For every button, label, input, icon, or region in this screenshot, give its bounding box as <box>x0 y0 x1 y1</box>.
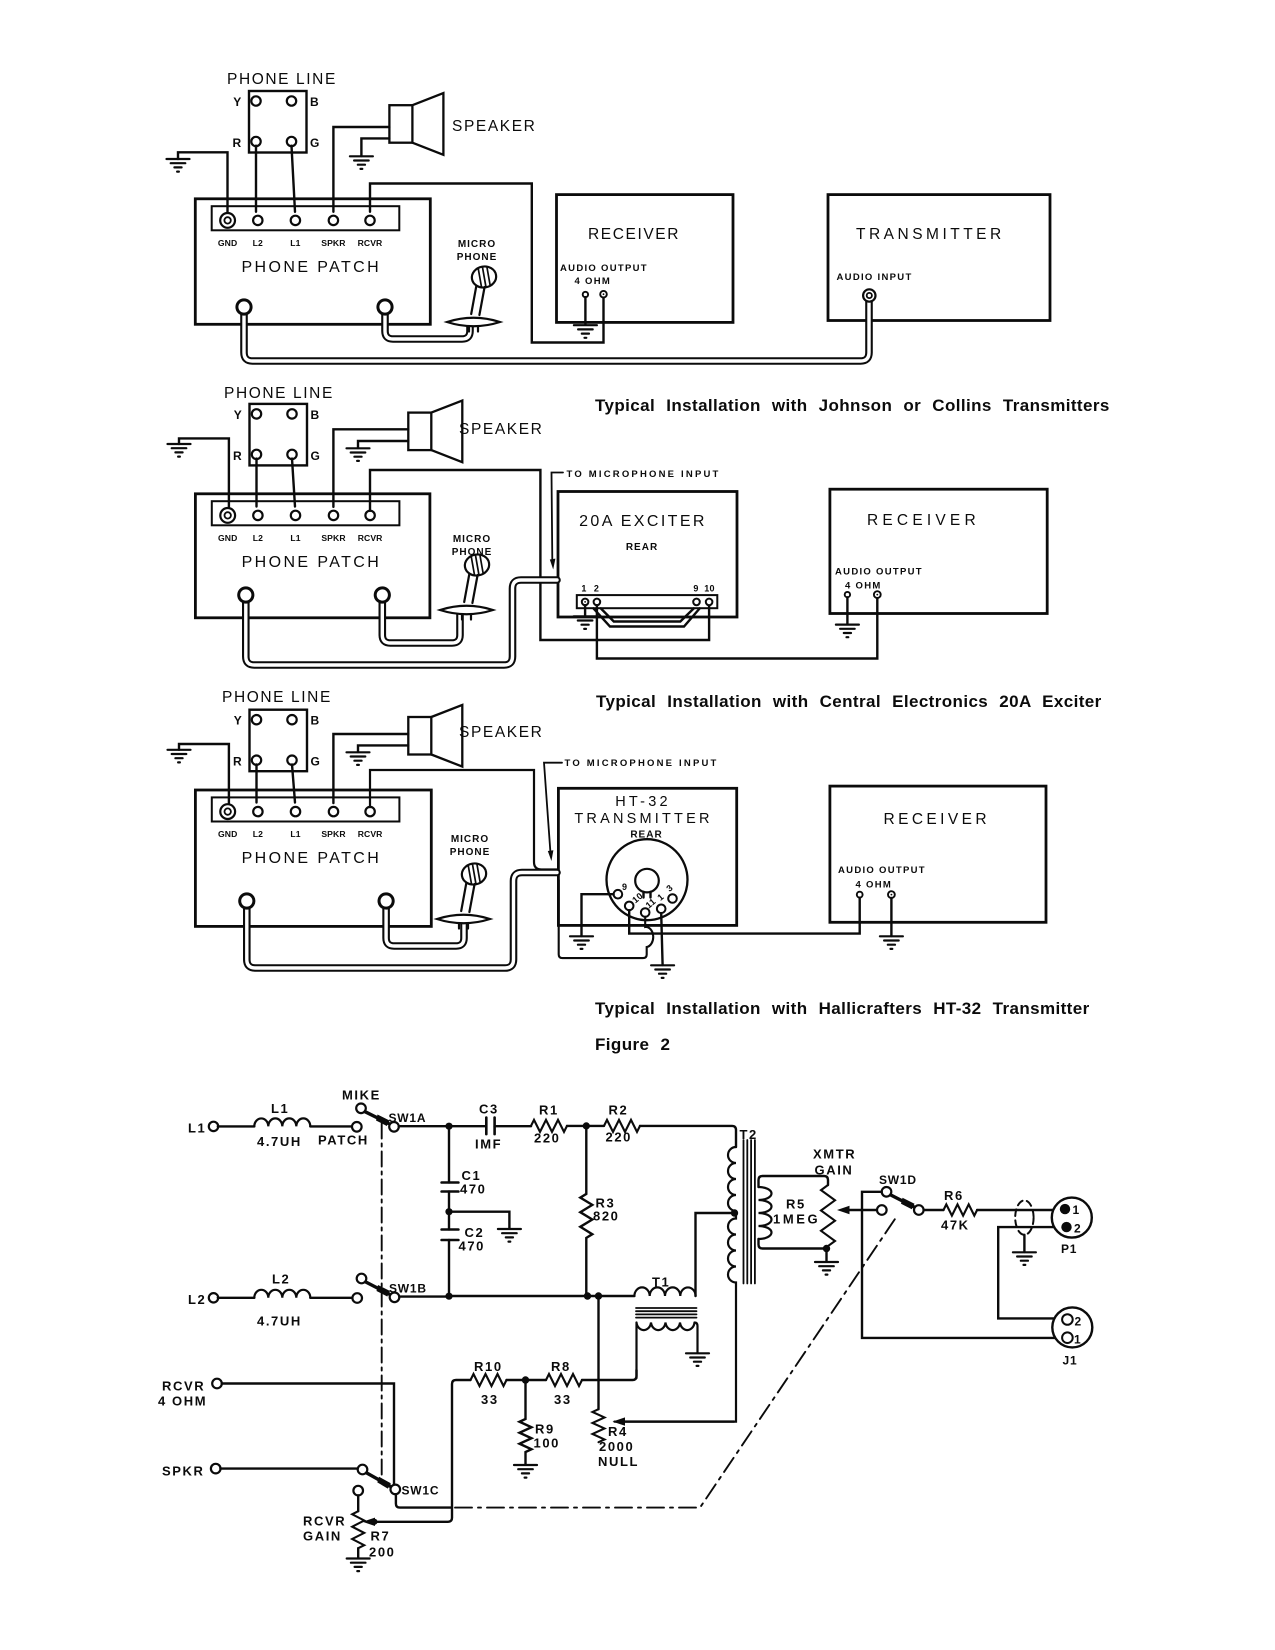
wire ground to GND terminal (d3) <box>179 744 229 803</box>
potentiometer R5 <box>821 1185 835 1249</box>
patch output jack right (d2) <box>375 588 389 602</box>
wire coil L2 to SW1B contact <box>310 1297 352 1299</box>
svg-text:MICRO: MICRO <box>453 534 491 545</box>
wire pin 9 to ground <box>582 894 614 936</box>
wire R8 to T1 secondary <box>582 1370 637 1380</box>
switch SW1C SPKR contact <box>358 1465 368 1475</box>
resistor R1 <box>531 1120 567 1132</box>
switch SW1B upper contact <box>357 1274 367 1284</box>
wire T1 primary to T2 center tap <box>696 1213 737 1296</box>
wire SPKR terminal to speaker (d2) <box>333 429 408 507</box>
svg-text:AUDIO INPUT: AUDIO INPUT <box>837 272 913 283</box>
cable patch jack to transmitter audio input <box>244 302 869 362</box>
svg-text:AUDIO OUTPUT: AUDIO OUTPUT <box>560 263 648 274</box>
ground (station ground d1) <box>167 159 190 172</box>
svg-text:R7: R7 <box>371 1529 391 1544</box>
wire C1 to C2 with ground tap <box>448 1192 450 1230</box>
connector P1 shell <box>1052 1198 1092 1238</box>
svg-text:SW1A: SW1A <box>389 1111 427 1125</box>
patch output jack left (d3) <box>240 894 254 908</box>
HT-32 connector shell <box>607 839 688 920</box>
ground (speaker d1) <box>350 156 373 169</box>
svg-text:R5: R5 <box>786 1197 806 1212</box>
ground (speaker d2) <box>347 448 370 461</box>
ground (receiver d1) <box>574 325 597 338</box>
svg-text:PHONE: PHONE <box>452 547 493 558</box>
wire R7 to ground <box>357 1548 359 1558</box>
node R4 top branch wire <box>597 1296 599 1409</box>
resistor R2 <box>604 1120 640 1132</box>
R4 wiper arrow <box>620 1420 734 1422</box>
svg-text:1: 1 <box>1074 1333 1081 1347</box>
svg-text:4 OHM: 4 OHM <box>845 581 882 592</box>
svg-text:HT-32: HT-32 <box>615 794 671 810</box>
switch SW1C arm <box>367 1473 390 1486</box>
svg-text:10: 10 <box>704 584 715 594</box>
speaker LS1 <box>389 93 443 155</box>
patch output jack left (d2) <box>239 588 253 602</box>
wire exciter terminal 2 to receiver output <box>597 598 877 658</box>
pin 11 <box>641 908 650 917</box>
transmitter box (d1) <box>828 195 1050 321</box>
resistor R9 <box>520 1380 532 1465</box>
svg-text:820: 820 <box>593 1209 620 1224</box>
node junction R9 top <box>522 1376 529 1383</box>
node junction ground tap <box>445 1208 452 1215</box>
svg-text:RECEIVER: RECEIVER <box>867 512 980 529</box>
node R7 wiper dot <box>372 1519 378 1525</box>
potentiometer R7 top terminal <box>353 1486 363 1496</box>
receiver terminal right (d3) <box>888 891 895 898</box>
leader TO MICROPHONE INPUT (d3) <box>544 763 562 852</box>
switch SW1B left contact <box>352 1293 362 1303</box>
node junction C2 bottom <box>445 1293 452 1300</box>
node T2 center tap <box>731 1209 738 1216</box>
transformer T2 secondary <box>759 1187 772 1239</box>
wire R1 to R2 <box>567 1125 604 1127</box>
cable patch jack to microphone (d2) <box>382 595 460 643</box>
wire speaker to ground (d3) <box>358 745 408 752</box>
svg-text:R6: R6 <box>944 1188 964 1203</box>
ground (R7) <box>347 1559 370 1572</box>
wire SW1A to C3 junction <box>399 1125 487 1127</box>
wire C2 to L2 rail <box>448 1240 450 1296</box>
svg-text:R10: R10 <box>474 1359 503 1374</box>
wire R6 to P1 pin 1 <box>977 1209 1060 1211</box>
resistor R6 <box>944 1204 978 1215</box>
svg-text:AUDIO OUTPUT: AUDIO OUTPUT <box>838 865 926 876</box>
wire SPKR terminal to speaker (d3) <box>333 734 408 803</box>
resistor R10 <box>471 1374 507 1386</box>
svg-text:PHONE: PHONE <box>450 847 491 858</box>
wire R7 top <box>357 1495 359 1511</box>
svg-text:IMF: IMF <box>475 1137 502 1152</box>
svg-text:REAR: REAR <box>626 542 658 553</box>
capacitor C1 <box>448 1126 450 1182</box>
switch SW1A common contact <box>389 1122 399 1132</box>
wire shield to ground <box>1023 1235 1025 1252</box>
cable bracket terminal 2 to 9 <box>594 608 700 626</box>
svg-text:GAIN: GAIN <box>815 1163 854 1178</box>
svg-text:220: 220 <box>534 1131 561 1146</box>
resistor R8 <box>546 1374 582 1386</box>
svg-text:RCVR: RCVR <box>303 1514 346 1529</box>
wire G to L1 <box>292 146 296 212</box>
svg-text:J1: J1 <box>1063 1354 1078 1368</box>
wire receiver terminal to ground (d2) <box>846 597 848 624</box>
svg-text:9: 9 <box>622 882 627 892</box>
svg-text:SPEAKER: SPEAKER <box>459 421 543 438</box>
svg-text:SW1B: SW1B <box>389 1282 427 1296</box>
svg-text:RCVR: RCVR <box>162 1379 205 1394</box>
mechanical linkage SW1C to SW1D <box>455 1216 897 1508</box>
wire SPKR terminal to SW1C contact <box>221 1467 358 1469</box>
wire L2 terminal to coil L2 <box>218 1297 255 1299</box>
wire RCVR terminal to SW1C common <box>222 1384 394 1485</box>
switch SW1B arm <box>366 1282 389 1294</box>
wire tap to ground <box>449 1212 509 1229</box>
wire ground to GND terminal (d2) <box>179 438 229 507</box>
svg-text:Typical Installation with Cent: Typical Installation with Central Electr… <box>596 692 1102 711</box>
potentiometer R4 <box>593 1409 605 1442</box>
R7 wiper arrowhead <box>363 1518 376 1526</box>
microphone (d1) <box>447 265 500 332</box>
R5 wiper arrow from SW1D <box>843 1209 877 1211</box>
svg-text:L1: L1 <box>271 1101 289 1116</box>
wire SW1C common to R10/R7 node <box>396 1494 452 1507</box>
transformer T1 primary winding <box>634 1287 695 1296</box>
exciter terminal 10 <box>706 599 713 606</box>
exciter terminal strip <box>577 595 718 608</box>
leader TO MICROPHONE INPUT (d2) <box>552 473 564 561</box>
exciter terminal 1 <box>582 599 589 606</box>
phone line terminal box TB2 <box>233 404 321 466</box>
switch SW1B common contact <box>390 1293 400 1303</box>
ground (station ground d2) <box>168 444 191 457</box>
svg-text:XMTR: XMTR <box>813 1147 856 1162</box>
node junction C1 branch <box>445 1123 452 1130</box>
svg-text:SW1D: SW1D <box>879 1173 917 1187</box>
ground (R9) <box>514 1465 537 1478</box>
transformer T1 secondary winding <box>637 1323 698 1379</box>
patch output jack (right) <box>378 300 392 314</box>
cable patch jack to microphone (d3) <box>386 902 464 946</box>
svg-text:Figure 2: Figure 2 <box>595 1035 670 1054</box>
svg-text:4 OHM: 4 OHM <box>856 880 893 891</box>
transformer T2 primary upper <box>728 1147 736 1211</box>
svg-text:SPKR: SPKR <box>162 1464 205 1479</box>
wire pin 1 to ground <box>661 913 662 965</box>
pin 3 <box>668 894 677 903</box>
resistor R3 <box>580 1126 592 1296</box>
svg-text:P1: P1 <box>1061 1242 1077 1256</box>
wire ground to GND terminal <box>178 152 228 212</box>
phone line terminal box TB1 <box>233 91 321 153</box>
phone line terminal box TB3 <box>233 710 321 772</box>
wire G to L1 (d3) <box>292 764 295 802</box>
pin 10 <box>625 902 634 911</box>
wire P1 pin 2 to J1 pin 2 <box>998 1227 1062 1318</box>
transmitter input jack <box>863 289 875 301</box>
svg-text:SPEAKER: SPEAKER <box>452 118 536 135</box>
svg-text:470: 470 <box>459 1239 486 1254</box>
switch SW1A PATCH contact <box>352 1122 362 1132</box>
20A exciter box <box>558 492 737 618</box>
svg-text:4 OHM: 4 OHM <box>575 276 612 287</box>
svg-text:TRANSMITTER: TRANSMITTER <box>856 226 1005 243</box>
ground (pin 1) <box>651 965 674 978</box>
receiver terminal left (d3) <box>857 892 863 898</box>
ground (speaker d3) <box>347 752 370 765</box>
cable patch jack to exciter mic input <box>246 580 557 665</box>
exciter terminal 9 <box>693 599 700 606</box>
svg-text:C3: C3 <box>479 1102 499 1117</box>
svg-text:2: 2 <box>594 584 599 594</box>
switch SW1D arm <box>891 1195 914 1207</box>
wire SW1B to T1 rail <box>399 1295 634 1298</box>
svg-text:AUDIO OUTPUT: AUDIO OUTPUT <box>835 567 923 578</box>
speaker LS3 <box>408 705 462 767</box>
transformer T2 primary lower <box>615 1213 737 1422</box>
receiver box (d1) <box>557 195 734 323</box>
svg-text:MIKE: MIKE <box>342 1088 381 1103</box>
wire receiver terminal to ground <box>584 297 586 325</box>
cable shield symbol <box>1015 1200 1033 1234</box>
microphone (d3) <box>437 862 490 929</box>
svg-text:PHONE LINE: PHONE LINE <box>222 689 332 706</box>
svg-text:4 OHM: 4 OHM <box>158 1394 207 1409</box>
svg-text:470: 470 <box>460 1182 487 1197</box>
svg-text:PHONE: PHONE <box>457 252 498 263</box>
P1 pin 1 <box>1060 1204 1070 1214</box>
ground (C1-C2 tap) <box>498 1229 521 1242</box>
svg-text:RECEIVER: RECEIVER <box>884 811 990 828</box>
switch SW1C common contact <box>391 1485 401 1495</box>
ground (T1 secondary) <box>686 1353 709 1366</box>
svg-text:47K: 47K <box>941 1218 970 1233</box>
svg-text:33: 33 <box>554 1392 572 1407</box>
phone patch unit (d1) <box>195 199 430 324</box>
svg-text:TO MICROPHONE INPUT: TO MICROPHONE INPUT <box>565 758 719 769</box>
receiver terminal (right) <box>600 291 607 298</box>
ground (receiver d2) <box>836 625 859 638</box>
wire L1 terminal to coil L1 <box>218 1125 255 1127</box>
svg-text:R2: R2 <box>609 1103 629 1118</box>
svg-text:MICRO: MICRO <box>451 834 489 845</box>
node junction R3 top <box>583 1122 590 1129</box>
svg-text:RECEIVER: RECEIVER <box>588 226 680 243</box>
wire C3 to R1 <box>495 1125 531 1127</box>
phone patch unit (d2) <box>195 494 430 618</box>
wire R to L2 (d2) <box>255 459 257 507</box>
cable patch jack to microphone <box>385 309 470 339</box>
svg-text:PHONE LINE: PHONE LINE <box>227 71 337 88</box>
svg-text:200: 200 <box>369 1545 396 1560</box>
wire R10 to R8 <box>507 1379 547 1381</box>
receiver box (d3) <box>830 786 1046 922</box>
svg-text:MICRO: MICRO <box>458 239 496 250</box>
wire pin 10 to receiver output <box>629 898 860 933</box>
svg-text:SW1C: SW1C <box>402 1484 440 1498</box>
transformer T2 core <box>744 1140 755 1284</box>
microphone (d2) <box>440 553 493 620</box>
svg-text:GAIN: GAIN <box>303 1529 342 1544</box>
wire T2 secondary top to R5 <box>759 1176 829 1187</box>
phone patch unit (d3) <box>195 790 431 926</box>
svg-text:9: 9 <box>693 584 698 594</box>
svg-text:220: 220 <box>606 1130 633 1145</box>
svg-text:L2: L2 <box>272 1272 290 1287</box>
wire RCVR terminal to HT-32 mic jack <box>370 770 557 870</box>
pin 9 <box>614 890 623 899</box>
ground (shield) <box>1013 1252 1036 1265</box>
svg-text:L1: L1 <box>188 1121 206 1136</box>
receiver terminal left (d2) <box>845 592 850 597</box>
capacitor C3 <box>486 1118 494 1135</box>
wire SPKR terminal to speaker <box>333 127 389 212</box>
wire speaker to ground <box>361 138 389 156</box>
wire speaker to ground (d2) <box>358 441 408 448</box>
svg-text:100: 100 <box>534 1436 561 1451</box>
J1 pin 2 <box>1062 1314 1073 1325</box>
J1 pin 1 <box>1062 1332 1073 1343</box>
node R5 bottom junction <box>823 1245 830 1252</box>
wire coil L1 to PATCH contact <box>310 1125 352 1127</box>
svg-text:33: 33 <box>481 1392 499 1407</box>
receiver terminal (left) <box>583 292 588 297</box>
svg-text:20A EXCITER: 20A EXCITER <box>579 513 707 530</box>
wire node to R10 and R7 wiper <box>368 1380 471 1522</box>
wire RCVR terminal to exciter terminal 10 <box>370 470 709 640</box>
node junction R4 branch <box>595 1292 602 1299</box>
ground (receiver d3) <box>880 936 903 949</box>
wire T2 secondary bottom to R5 bottom <box>759 1239 827 1249</box>
patch output jack right (d3) <box>379 894 393 908</box>
cable patch jack to HT-32 (d3) <box>247 873 557 969</box>
svg-text:TRANSMITTER: TRANSMITTER <box>574 811 712 827</box>
svg-text:SPEAKER: SPEAKER <box>459 724 543 741</box>
svg-text:1MEG: 1MEG <box>773 1212 820 1227</box>
inductor L2 <box>254 1290 310 1298</box>
svg-text:Typical Installation with Hall: Typical Installation with Hallicrafters … <box>595 999 1090 1018</box>
speaker LS2 <box>408 401 462 463</box>
switch SW1D left contact <box>877 1205 887 1215</box>
connector J1 shell <box>1052 1307 1092 1347</box>
wire pin 11 to mic input junction <box>559 880 654 958</box>
svg-text:1: 1 <box>581 584 586 594</box>
potentiometer R7 <box>352 1511 364 1548</box>
wire R2 to T2 primary top <box>640 1126 736 1147</box>
svg-text:NULL: NULL <box>598 1454 639 1469</box>
wire exciter terminal 1 to ground <box>584 605 586 616</box>
svg-text:R8: R8 <box>551 1359 571 1374</box>
wire receiver terminal to ground (d3) <box>890 898 892 936</box>
switch SW1A arm <box>365 1112 388 1124</box>
receiver terminal right (d2) <box>874 591 881 598</box>
svg-text:PATCH: PATCH <box>318 1133 369 1148</box>
svg-text:4.7UH: 4.7UH <box>257 1134 302 1149</box>
ground (R5) <box>815 1262 838 1275</box>
patch output jack (left) <box>237 300 251 314</box>
svg-text:Typical Installation with John: Typical Installation with Johnson or Col… <box>595 396 1110 415</box>
svg-text:4.7UH: 4.7UH <box>257 1314 302 1329</box>
ground (pin 9) <box>570 936 593 949</box>
P1 pin 2 <box>1061 1222 1071 1232</box>
node junction R3 bottom <box>584 1292 591 1299</box>
ground (station ground d3) <box>168 750 191 763</box>
capacitor C2 <box>442 1230 459 1241</box>
exciter terminal 2 <box>594 599 601 606</box>
ground (exciter) <box>574 616 597 629</box>
svg-text:R9: R9 <box>535 1422 555 1437</box>
svg-text:1: 1 <box>1073 1203 1080 1217</box>
svg-text:R1: R1 <box>539 1103 559 1118</box>
svg-text:R4: R4 <box>608 1424 628 1439</box>
wire SW1D common to R6 <box>924 1209 944 1211</box>
switch SW1D common contact <box>914 1205 924 1215</box>
mechanical linkage SW1A-SW1B-SW1C <box>381 1124 383 1478</box>
svg-text:TO MICROPHONE INPUT: TO MICROPHONE INPUT <box>567 469 721 480</box>
switch SW1D upper contact <box>882 1187 892 1197</box>
transformer T1 core <box>636 1308 697 1318</box>
svg-text:2000: 2000 <box>599 1439 634 1454</box>
inductor L1 <box>254 1118 310 1126</box>
wire G to L1 (d2) <box>292 459 295 507</box>
connector key circle <box>635 869 659 893</box>
wire R to L2 (d3) <box>255 764 257 802</box>
HT-32 transmitter box <box>558 788 736 925</box>
svg-text:2: 2 <box>1074 1222 1081 1236</box>
wire RCVR terminal to receiver output <box>370 184 604 343</box>
wire SW1D upper contact to J1 pin 1 <box>862 1192 1057 1338</box>
receiver box (d2) <box>830 489 1047 613</box>
switch SW1A MIKE contact <box>356 1104 366 1114</box>
svg-text:L2: L2 <box>188 1292 206 1307</box>
wire R to L2 <box>255 146 257 212</box>
pin 1 <box>657 905 666 914</box>
svg-text:2: 2 <box>1075 1315 1082 1329</box>
svg-text:PHONE LINE: PHONE LINE <box>224 385 334 402</box>
wire R5 bottom to ground <box>825 1249 827 1262</box>
